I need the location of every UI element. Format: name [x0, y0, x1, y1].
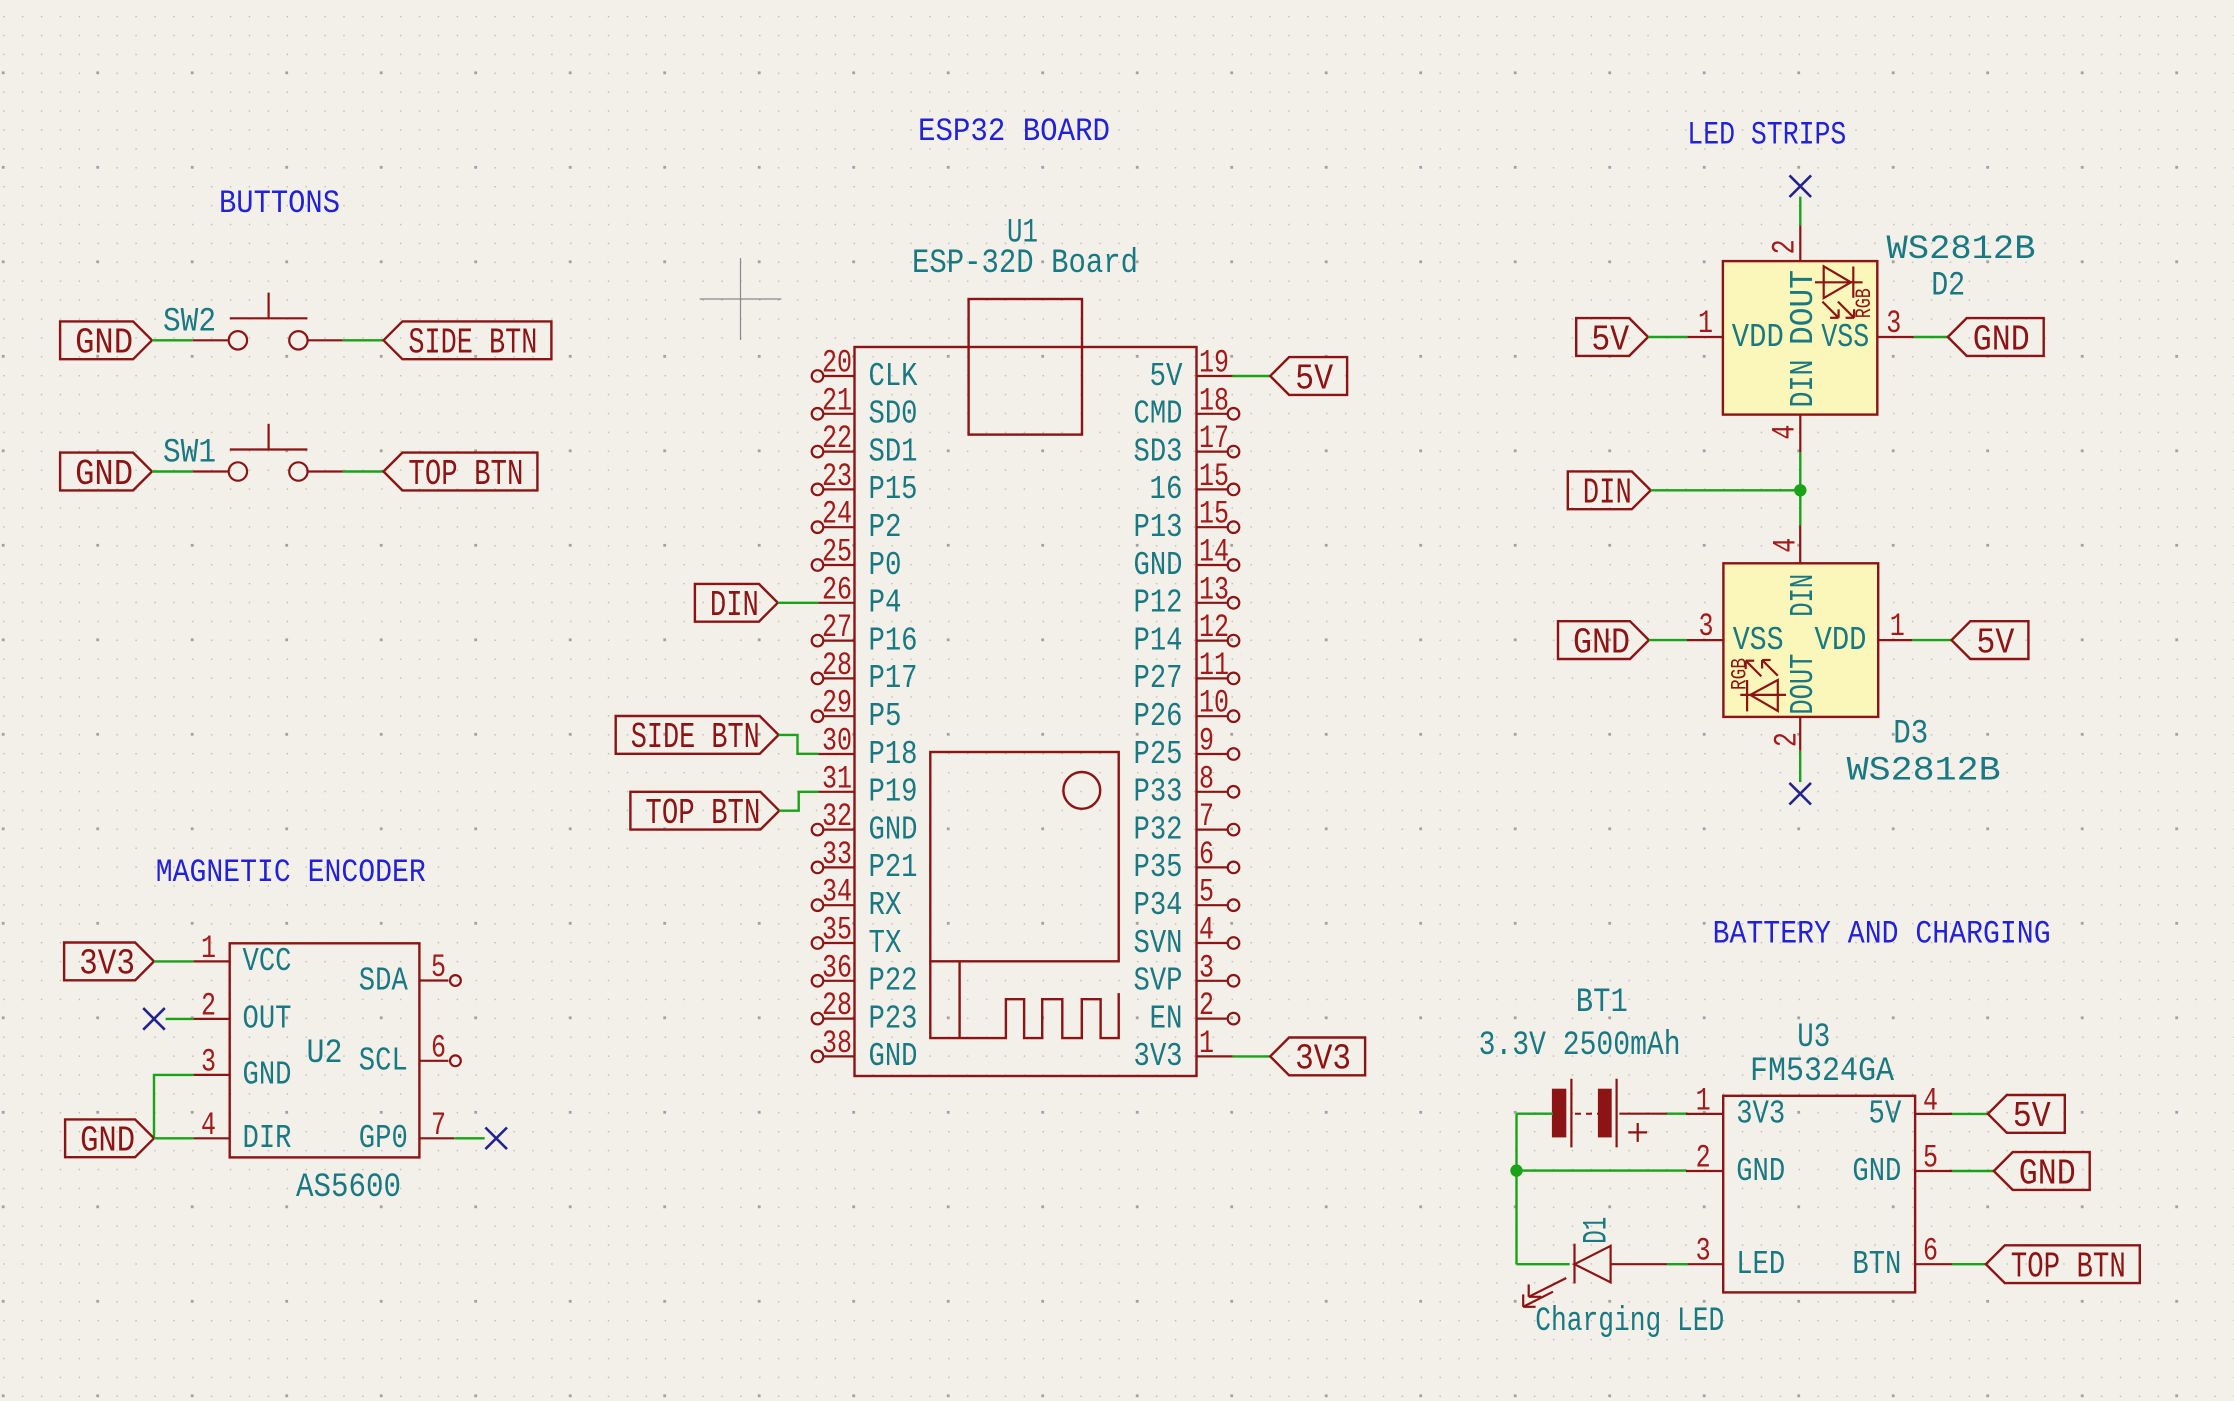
wire D1 anode to U3 pin 3 — [1667, 1263, 1688, 1265]
svg-text:5V: 5V — [1976, 622, 2014, 663]
svg-text:30: 30 — [822, 723, 852, 760]
U2 pin 1 (VCC) — [194, 930, 292, 980]
U1 pin 15 (P13) right — [1134, 496, 1240, 546]
svg-text:P2: P2 — [869, 509, 902, 546]
power label 3V3 (U2) — [64, 943, 154, 985]
wire nc to U2 pin 2 — [166, 1018, 194, 1020]
svg-text:P18: P18 — [869, 736, 918, 773]
U1 pin 23 (P15) left — [812, 458, 918, 508]
svg-text:2: 2 — [1767, 239, 1804, 254]
U1 pin 35 (TX) left — [812, 912, 902, 962]
svg-text:DIN: DIN — [1583, 473, 1632, 514]
svg-text:GND: GND — [869, 1038, 918, 1075]
U1 pin 10 (P26) right — [1134, 685, 1240, 735]
U3 pin 6 (BTN) — [1852, 1233, 1952, 1283]
D3 pin 1 (VDD right) — [1878, 608, 1912, 645]
switch SW1 — [193, 424, 343, 481]
svg-text:FM5324GA: FM5324GA — [1750, 1053, 1895, 1091]
svg-text:SVN: SVN — [1134, 925, 1183, 962]
svg-text:RGB: RGB — [1728, 658, 1753, 690]
svg-text:D2: D2 — [1931, 268, 1965, 306]
D2 pin 3 (VSS right) — [1877, 305, 1914, 342]
wire U1 pin 1 to 3V3 — [1233, 1055, 1271, 1057]
svg-text:14: 14 — [1199, 534, 1229, 571]
U1 pin 15 (16) right — [1150, 458, 1240, 508]
global label SIDE BTN (buttons) — [384, 321, 552, 363]
svg-text:5V: 5V — [1150, 358, 1183, 395]
svg-text:35: 35 — [822, 912, 852, 949]
wire D2 pin 4 to D3 pin 4 — [1799, 452, 1801, 525]
U2 pin 3 (GND) — [194, 1043, 292, 1093]
wire D3 pin 2 to nc — [1799, 751, 1801, 783]
svg-text:RX: RX — [869, 887, 902, 924]
wire D2 pin 3 to GND — [1914, 336, 1948, 338]
svg-text:6: 6 — [431, 1029, 446, 1066]
svg-text:33: 33 — [822, 836, 852, 873]
junction battery GND net — [1510, 1164, 1522, 1176]
svg-text:2: 2 — [201, 987, 216, 1024]
U1 pin 5 (P34) right — [1134, 874, 1240, 924]
svg-text:P4: P4 — [869, 585, 902, 622]
svg-text:TX: TX — [869, 925, 902, 962]
U1 pin 29 (P5) left — [812, 685, 902, 735]
global label TOP BTN (U3) — [1986, 1245, 2140, 1287]
LED D3 body (WS2812B) — [1723, 563, 1878, 717]
svg-text:DIN: DIN — [1785, 574, 1822, 617]
wire U3 pin 6 to TOP BTN — [1952, 1263, 1986, 1265]
svg-text:6: 6 — [1199, 836, 1214, 873]
U1 pin 12 (P14) right — [1134, 609, 1240, 659]
op-amp U1 body: ESP-32D board outline — [855, 347, 1197, 1076]
svg-text:AS5600: AS5600 — [296, 1169, 401, 1207]
junction at DIN net — [1794, 484, 1806, 496]
svg-text:4: 4 — [201, 1107, 216, 1144]
U2 pin 5 (SDA) — [359, 949, 461, 999]
svg-text:3: 3 — [1886, 305, 1901, 342]
svg-text:Charging LED: Charging LED — [1535, 1303, 1724, 1341]
wire SW1 pin 2 to TOP BTN — [343, 470, 384, 472]
no-connect X at U2 OUT — [143, 1008, 165, 1030]
svg-text:3V3: 3V3 — [79, 944, 135, 985]
wire junction to U3 pin 2 — [1517, 1169, 1687, 1171]
U1 pin 30 (P18) left — [818, 723, 917, 773]
power label 5V (U1) — [1270, 357, 1347, 399]
U1 pin 32 (GND) left — [812, 798, 918, 848]
svg-text:5: 5 — [1923, 1140, 1938, 1177]
svg-text:13: 13 — [1199, 571, 1229, 608]
svg-text:P12: P12 — [1134, 585, 1183, 622]
wire GND to D3 pin 3 — [1649, 639, 1687, 641]
svg-text:3V3: 3V3 — [1295, 1039, 1351, 1080]
svg-text:19: 19 — [1199, 345, 1229, 382]
svg-text:17: 17 — [1199, 420, 1229, 457]
D3 pin 4 (DIN top) — [1767, 526, 1804, 564]
U1 USB connector rectangle — [969, 299, 1082, 435]
wire battery + left — [1517, 1112, 1554, 1114]
sheet origin crosshair — [700, 258, 782, 340]
IC U3 body (FM5324GA) — [1723, 1096, 1915, 1293]
svg-text:ESP32 BOARD: ESP32 BOARD — [918, 113, 1110, 150]
no-connect X at U2 GP0 — [485, 1128, 507, 1150]
svg-text:OUT: OUT — [243, 1001, 292, 1038]
U1 pin 27 (P16) left — [812, 609, 918, 659]
diode D1 charging LED — [1523, 1244, 1667, 1307]
svg-text:P5: P5 — [869, 698, 902, 735]
wire U3 pin 5 to GND — [1952, 1170, 1994, 1172]
wire GND to SW1 pin 1 — [152, 470, 193, 472]
U1 pin 20 (CLK) left — [812, 345, 918, 395]
svg-text:SD0: SD0 — [869, 396, 918, 433]
D2 pin 1 (VDD left) — [1687, 305, 1723, 342]
svg-text:VDD: VDD — [1732, 319, 1784, 356]
wire battery to U3 pin 1 — [1667, 1112, 1688, 1114]
U1 pin 31 (P19) left — [818, 760, 917, 810]
svg-text:VDD: VDD — [1815, 622, 1867, 659]
U1 pin 9 (P25) right — [1134, 723, 1240, 773]
wire DIN to U1 pin 26 — [778, 602, 819, 604]
svg-text:25: 25 — [822, 534, 852, 571]
svg-text:GND: GND — [1736, 1153, 1785, 1190]
svg-text:GND: GND — [2019, 1153, 2076, 1194]
svg-text:5: 5 — [1199, 874, 1214, 911]
D2 pin 2 (VDD top) — [1767, 225, 1804, 261]
svg-text:11: 11 — [1199, 647, 1229, 684]
svg-text:1: 1 — [1698, 305, 1713, 342]
svg-text:5V: 5V — [1868, 1096, 1901, 1133]
wire DIN to junction — [1651, 489, 1801, 491]
svg-text:TOP BTN: TOP BTN — [2011, 1247, 2126, 1288]
svg-text:GND: GND — [80, 1121, 135, 1162]
U3 pin 5 (GND) — [1852, 1140, 1952, 1190]
svg-text:16: 16 — [1150, 471, 1183, 508]
U1 antenna castellation — [930, 961, 1118, 1038]
svg-text:GND: GND — [1134, 547, 1183, 584]
battery BT1 — [1553, 1079, 1667, 1148]
power label GND (U3) — [1994, 1152, 2090, 1194]
D3 pin 2 (VSS bottom) — [1769, 717, 1806, 751]
LED D2 body (WS2812B) — [1723, 261, 1877, 415]
svg-text:P19: P19 — [869, 774, 918, 811]
D2 pin 4 (DIN bottom) — [1767, 415, 1804, 453]
wire GND to U2 pin 4 — [154, 1137, 194, 1139]
U1 pin 25 (P0) left — [812, 534, 902, 584]
global label TOP BTN (to U1 P19) — [630, 792, 779, 834]
U1 pin 13 (P12) right — [1134, 571, 1240, 621]
svg-text:TOP BTN: TOP BTN — [645, 793, 760, 834]
svg-text:3V3: 3V3 — [1736, 1096, 1785, 1133]
svg-text:26: 26 — [822, 571, 852, 608]
U1 module circle mark — [1063, 772, 1100, 809]
D2 internal LED symbol — [1815, 266, 1877, 318]
U1 pin 19 (5V) right — [1150, 345, 1233, 395]
global label SIDE BTN (to U1 P18) — [616, 716, 779, 758]
svg-text:SIDE BTN: SIDE BTN — [408, 323, 537, 364]
power label GND (to SW1) — [60, 453, 152, 495]
wire 3V3 to U2 pin 1 — [154, 960, 194, 962]
svg-text:SW2: SW2 — [163, 303, 216, 341]
svg-text:SIDE BTN: SIDE BTN — [631, 717, 760, 758]
svg-text:4: 4 — [1767, 538, 1804, 553]
wire U1 pin 19 to 5V — [1233, 375, 1271, 377]
wire U3 pin 4 to 5V — [1952, 1113, 1988, 1115]
U1 pin 28 (P17) left — [812, 647, 918, 697]
U1 pin 24 (P2) left — [812, 496, 902, 546]
svg-text:VSS: VSS — [1733, 622, 1784, 659]
svg-text:SVP: SVP — [1134, 963, 1183, 1000]
wire nc to D2 pin 2 — [1799, 197, 1801, 226]
U1 pin 1 (3V3) right — [1134, 1025, 1233, 1075]
svg-text:3: 3 — [1199, 949, 1214, 986]
svg-text:27: 27 — [822, 609, 852, 646]
svg-text:P35: P35 — [1134, 849, 1183, 886]
U3 pin 1 (3V3) — [1686, 1082, 1785, 1132]
svg-text:SCL: SCL — [359, 1043, 408, 1080]
svg-text:EN: EN — [1150, 1000, 1183, 1037]
svg-text:P13: P13 — [1134, 509, 1183, 546]
svg-text:P17: P17 — [869, 660, 918, 697]
svg-text:BTN: BTN — [1852, 1246, 1901, 1283]
power label 5V (D2) — [1576, 318, 1648, 360]
svg-text:P15: P15 — [869, 471, 918, 508]
power label GND (D2) — [1948, 318, 2044, 360]
svg-text:7: 7 — [1199, 798, 1214, 835]
U1 pin 2 (EN) right — [1150, 987, 1240, 1037]
svg-text:7: 7 — [431, 1107, 446, 1144]
svg-text:5V: 5V — [2013, 1096, 2051, 1137]
switch SW2 — [193, 293, 343, 350]
svg-text:SD3: SD3 — [1134, 433, 1183, 470]
power label GND (U2) — [65, 1119, 154, 1161]
wire GND to SW2 pin 1 — [152, 339, 193, 341]
svg-text:BUTTONS: BUTTONS — [219, 185, 340, 222]
svg-text:MAGNETIC ENCODER: MAGNETIC ENCODER — [156, 854, 426, 891]
svg-text:U2: U2 — [307, 1035, 343, 1073]
svg-text:P27: P27 — [1134, 660, 1183, 697]
svg-text:23: 23 — [822, 458, 852, 495]
svg-text:1: 1 — [1890, 608, 1905, 645]
U1 pin 11 (P27) right — [1134, 647, 1240, 697]
IC U2 body (AS5600) — [230, 943, 420, 1157]
svg-text:2: 2 — [1199, 987, 1214, 1024]
wire D3 pin 1 to 5V — [1912, 639, 1952, 641]
U3 pin 4 (5V) — [1868, 1082, 1952, 1132]
svg-text:P14: P14 — [1134, 622, 1183, 659]
svg-text:31: 31 — [822, 760, 852, 797]
svg-text:21: 21 — [822, 382, 852, 419]
U1 pin 3 (SVP) right — [1134, 949, 1240, 999]
svg-text:GND: GND — [243, 1057, 292, 1094]
U1 pin 4 (SVN) right — [1134, 912, 1240, 962]
wire SIDE BTN to U1 pin 30 — [779, 735, 819, 754]
svg-text:SDA: SDA — [359, 962, 408, 999]
svg-text:P33: P33 — [1134, 774, 1183, 811]
global label TOP BTN (buttons) — [384, 453, 538, 495]
svg-text:28: 28 — [822, 647, 852, 684]
svg-text:4: 4 — [1767, 425, 1804, 440]
U1 pin 26 (P4) left — [818, 571, 901, 621]
svg-text:P25: P25 — [1134, 736, 1183, 773]
wire U2 pin 3 to GND net — [154, 1075, 194, 1138]
svg-text:3.3V 2500mAh: 3.3V 2500mAh — [1479, 1027, 1681, 1065]
U1 module shield rectangle — [930, 752, 1118, 961]
svg-text:3: 3 — [1699, 608, 1714, 645]
svg-text:18: 18 — [1199, 382, 1229, 419]
U1 pin 28 (P23) left — [812, 987, 918, 1037]
U2 pin 4 (DIR) — [194, 1107, 292, 1157]
U1 pin 21 (SD0) left — [812, 382, 918, 432]
svg-text:P23: P23 — [869, 1000, 918, 1037]
U1 pin 17 (SD3) right — [1134, 420, 1240, 470]
svg-text:28: 28 — [822, 987, 852, 1024]
svg-text:SD1: SD1 — [869, 433, 918, 470]
svg-text:CLK: CLK — [869, 358, 918, 395]
global label DIN (to U1 P4) — [695, 584, 778, 626]
svg-text:3: 3 — [201, 1043, 216, 1080]
U3 pin 2 (GND) — [1686, 1140, 1785, 1190]
svg-text:P0: P0 — [869, 547, 902, 584]
U1 pin 7 (P32) right — [1134, 798, 1240, 848]
no-connect X below D3 — [1789, 783, 1811, 805]
global label DIN (LED strips) — [1568, 471, 1651, 513]
svg-text:34: 34 — [822, 874, 852, 911]
svg-text:29: 29 — [822, 685, 852, 722]
svg-text:SW1: SW1 — [163, 435, 216, 473]
U3 pin 3 (LED) — [1686, 1233, 1785, 1283]
svg-text:2: 2 — [1696, 1140, 1711, 1177]
svg-text:VCC: VCC — [243, 943, 292, 980]
U1 pin 38 (GND) left — [812, 1025, 918, 1075]
D3 pin 3 (VSS left) — [1687, 608, 1723, 645]
svg-text:WS2812B: WS2812B — [1887, 231, 2036, 269]
power label GND (D3) — [1558, 621, 1649, 663]
svg-text:GND: GND — [1573, 622, 1630, 663]
svg-text:CMD: CMD — [1134, 396, 1183, 433]
svg-text:1: 1 — [1696, 1082, 1711, 1119]
svg-text:8: 8 — [1199, 760, 1214, 797]
svg-text:5V: 5V — [1295, 358, 1333, 399]
U2 pin 7 (GP0) — [359, 1107, 455, 1157]
svg-text:1: 1 — [201, 930, 216, 967]
svg-text:GND: GND — [1852, 1153, 1901, 1190]
svg-text:P34: P34 — [1134, 887, 1183, 924]
wire to D1 cathode — [1517, 1263, 1570, 1265]
U1 antenna inner line — [958, 961, 960, 1038]
power label 3V3 (U1) — [1270, 1038, 1365, 1080]
svg-text:GND: GND — [75, 454, 133, 495]
U1 pin 34 (RX) left — [812, 874, 902, 924]
svg-text:P16: P16 — [869, 622, 918, 659]
svg-text:U3: U3 — [1797, 1019, 1830, 1057]
svg-text:6: 6 — [1923, 1233, 1938, 1270]
svg-text:10: 10 — [1199, 685, 1229, 722]
wire 5V to D2 pin 1 — [1648, 336, 1687, 338]
U1 pin 18 (CMD) right — [1134, 382, 1240, 432]
wire U2 pin 7 to nc — [454, 1137, 484, 1139]
U1 pin 8 (P33) right — [1134, 760, 1240, 810]
svg-text:1: 1 — [1199, 1025, 1214, 1062]
svg-text:P26: P26 — [1134, 698, 1183, 735]
power label 5V (U3) — [1988, 1095, 2065, 1137]
svg-text:ESP-32D Board: ESP-32D Board — [912, 245, 1138, 283]
svg-text:3V3: 3V3 — [1134, 1038, 1183, 1075]
U2 pin 2 (OUT) — [194, 987, 292, 1037]
svg-text:GND: GND — [1973, 319, 2030, 360]
svg-text:2: 2 — [1769, 732, 1806, 747]
power label 5V (D3) — [1952, 621, 2029, 663]
svg-text:RGB: RGB — [1852, 288, 1877, 318]
svg-text:9: 9 — [1199, 723, 1214, 760]
svg-text:4: 4 — [1923, 1082, 1938, 1119]
svg-text:12: 12 — [1199, 609, 1229, 646]
U1 pin 6 (P35) right — [1134, 836, 1240, 886]
power label GND (to SW2) — [60, 321, 152, 363]
svg-text:5: 5 — [431, 949, 446, 986]
svg-text:P32: P32 — [1134, 811, 1183, 848]
svg-text:LED: LED — [1736, 1246, 1785, 1283]
wire SW2 pin 2 to SIDE BTN — [343, 339, 384, 341]
svg-text:TOP BTN: TOP BTN — [408, 454, 523, 495]
svg-text:VSS: VSS — [1821, 319, 1869, 356]
svg-text:15: 15 — [1199, 496, 1229, 533]
D3 internal LED symbol — [1728, 658, 1787, 711]
svg-text:4: 4 — [1199, 912, 1214, 949]
U1 pin 33 (P21) left — [812, 836, 918, 886]
U1 pin 22 (SD1) left — [812, 420, 918, 470]
no-connect X above D2 — [1790, 175, 1812, 197]
svg-text:LED STRIPS: LED STRIPS — [1687, 117, 1846, 154]
wire battery negative rail vertical — [1515, 1114, 1517, 1265]
svg-text:22: 22 — [822, 420, 852, 457]
svg-text:38: 38 — [822, 1025, 852, 1062]
U1 pin 14 (GND) right — [1134, 534, 1240, 584]
svg-text:32: 32 — [822, 798, 852, 835]
svg-text:DOUT: DOUT — [1785, 654, 1822, 715]
svg-text:DIN: DIN — [710, 585, 759, 626]
wire TOP BTN to U1 pin 31 — [779, 792, 818, 811]
svg-text:GND: GND — [75, 323, 133, 364]
svg-text:24: 24 — [822, 496, 852, 533]
svg-text:WS2812B: WS2812B — [1847, 753, 2001, 791]
svg-text:BT1: BT1 — [1576, 984, 1628, 1022]
svg-text:5V: 5V — [1591, 319, 1629, 360]
svg-text:D3: D3 — [1893, 716, 1928, 754]
svg-text:D1: D1 — [1579, 1217, 1617, 1244]
svg-text:36: 36 — [822, 949, 852, 986]
svg-text:DIN: DIN — [1785, 360, 1822, 408]
svg-text:GP0: GP0 — [359, 1120, 408, 1157]
U1 pin 36 (P22) left — [812, 949, 918, 999]
svg-text:P22: P22 — [869, 963, 918, 1000]
svg-text:BATTERY AND CHARGING: BATTERY AND CHARGING — [1713, 915, 2051, 952]
svg-text:3: 3 — [1696, 1233, 1711, 1270]
svg-text:P21: P21 — [869, 849, 918, 886]
svg-text:GND: GND — [869, 811, 918, 848]
svg-text:20: 20 — [822, 345, 852, 382]
svg-text:15: 15 — [1199, 458, 1229, 495]
U2 pin 6 (SCL) — [359, 1029, 461, 1079]
svg-text:DIR: DIR — [243, 1120, 292, 1157]
